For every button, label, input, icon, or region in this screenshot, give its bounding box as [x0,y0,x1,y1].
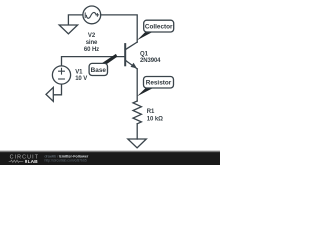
logo LAB mark [25,160,27,163]
svg-text:60 Hz: 60 Hz [84,47,99,53]
V2 minus sign (rotated) [84,13,86,18]
svg-text:R1: R1 [147,109,155,115]
svg-text:10 kΩ: 10 kΩ [147,117,163,123]
flag box (Collector) [144,20,174,32]
V2 sine glyph [86,12,96,18]
svg-text:2N3904: 2N3904 [140,58,161,64]
wire resistor to ground [136,124,138,139]
logo wire+resistor glyph [9,160,24,162]
wire V2 left lead to ground corner [68,15,83,25]
ground (V1, left-pointing) [46,87,53,101]
svg-text:sine: sine [86,40,98,46]
flag box (Base) [89,63,107,75]
svg-text:LAB: LAB [28,159,39,165]
svg-text:Q1: Q1 [140,52,149,58]
svg-text:Collector: Collector [145,24,173,31]
Q1 emitter arrowhead [131,63,137,69]
Q1 emitter lead [125,60,137,69]
svg-text:Resistor: Resistor [146,80,172,87]
svg-text:http://circuitlab.com/c/87b65: http://circuitlab.com/c/87b65 [45,159,87,163]
voltage source V1 circle [52,66,70,84]
resistor R1 zigzag [133,101,141,124]
ground (V2, down-pointing) [59,25,77,34]
Q1 collector lead [125,42,137,50]
flag box (Resistor) [144,77,174,89]
V1 minus sign [59,78,65,80]
svg-text:Base: Base [91,67,107,74]
flag tail (Base) [100,54,117,64]
V1 plus sign [59,68,65,74]
transistor Q1 base bar [124,44,126,65]
V2 plus sign [96,14,99,17]
flag tail (Collector) [137,31,154,40]
watermark bar [0,150,220,165]
wire emitter to resistor [136,69,138,101]
svg-text:10 V: 10 V [75,76,87,82]
svg-text:V1: V1 [75,69,83,75]
voltage source V2 (sine) circle [83,6,101,24]
flag tail (Resistor) [137,87,154,96]
wire V2 right lead to collector node [101,15,138,42]
wire V1 bottom to ground [54,84,62,95]
ground (bottom, down-pointing) [128,139,147,148]
wire base (V1 top to Q1 base) [62,57,126,66]
svg-text:V2: V2 [88,33,96,39]
